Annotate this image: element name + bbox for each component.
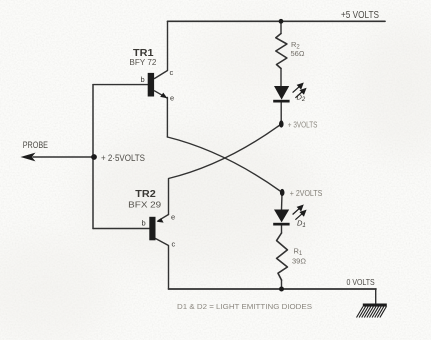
svg-text:b: b <box>142 219 146 228</box>
resistor R1 <box>277 233 288 280</box>
svg-text:56Ω: 56Ω <box>291 49 305 58</box>
node probe junction <box>91 154 97 160</box>
ground symbol <box>357 304 387 318</box>
svg-text:D1 & D2 = LIGHT EMITTING DIODE: D1 & D2 = LIGHT EMITTING DIODES <box>177 302 312 311</box>
svg-text:BFY 72: BFY 72 <box>129 58 157 67</box>
wire emitter vertical to crossover <box>166 98 168 138</box>
svg-text:+ 2VOLTS: + 2VOLTS <box>290 189 323 198</box>
resistor R2 <box>276 34 287 69</box>
transistor TR2 emitter arrowhead <box>157 218 164 223</box>
svg-text:BFX 29: BFX 29 <box>128 200 162 209</box>
svg-text:+ 3VOLTS: + 3VOLTS <box>288 121 318 130</box>
svg-text:TR2: TR2 <box>135 188 156 200</box>
wire D2 to +3V node <box>280 103 282 125</box>
wire rail to ground <box>375 289 377 304</box>
svg-text:c: c <box>170 68 174 77</box>
svg-text:b: b <box>141 75 145 84</box>
wire left vertical base bus <box>92 85 94 229</box>
wire TR2 base <box>93 228 149 230</box>
LED D1 light arrows <box>293 205 306 219</box>
wire R2 to D2 <box>280 69 282 87</box>
node bottom rail junction <box>279 287 284 292</box>
transistor TR1 base bar <box>148 73 154 97</box>
wire top rail +5V <box>168 20 386 22</box>
node +3 volts <box>279 120 284 127</box>
wire D1 to R1 <box>281 225 283 233</box>
wire +2V node to D1 <box>281 194 284 210</box>
probe arrowhead <box>21 153 36 162</box>
svg-text:+ 2·5VOLTS: + 2·5VOLTS <box>101 153 145 163</box>
node +2 volts <box>280 189 285 196</box>
svg-text:e: e <box>170 94 174 103</box>
LED D2 <box>273 86 289 103</box>
wire probe lead <box>33 156 94 158</box>
svg-text:0 VOLTS: 0 VOLTS <box>347 278 376 287</box>
transistor TR1 emitter arrowhead <box>160 93 167 99</box>
svg-text:c: c <box>172 240 176 249</box>
wire R1 to rail <box>281 280 283 289</box>
svg-text:+5 VOLTS: +5 VOLTS <box>341 10 379 21</box>
svg-text:PROBE: PROBE <box>23 140 48 150</box>
wire +3V node to TR2 emitter crossover <box>169 124 282 215</box>
wire rail to R2 <box>280 21 282 33</box>
node top rail junction <box>279 19 284 24</box>
LED D2 light arrows <box>293 84 306 98</box>
wire TR1 emitter diagonal <box>155 91 168 98</box>
wire bottom rail 0V <box>169 288 377 290</box>
transistor TR2 base bar <box>149 217 155 241</box>
svg-text:e: e <box>171 213 175 222</box>
LED D1 <box>273 210 289 226</box>
wire TR2 emitter arrowline <box>158 215 169 221</box>
svg-text:39Ω: 39Ω <box>292 257 306 266</box>
wire crossover to +2V node <box>167 137 282 193</box>
wire TR2 collector <box>156 239 169 290</box>
wire TR1 base <box>93 84 148 86</box>
wire TR1 collector <box>155 21 168 78</box>
